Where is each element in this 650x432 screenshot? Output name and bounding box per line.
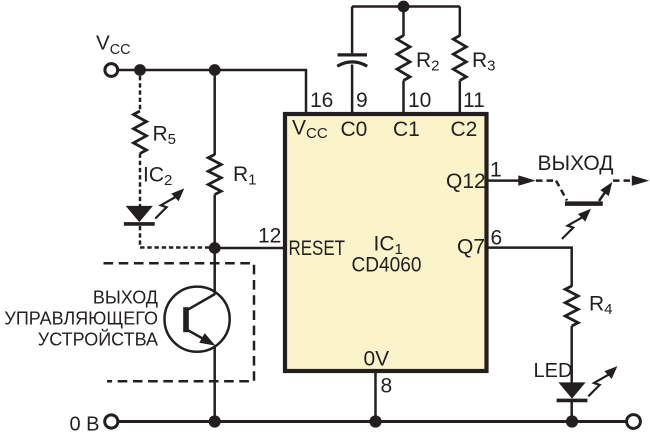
wire R4 to LED [570,326,573,383]
node junction RESET [209,242,221,254]
resistor R5 [134,111,147,154]
svg-text:12: 12 [258,225,281,248]
arrow output end [632,175,650,185]
wire VCC node down to R1 [213,70,216,155]
svg-text:10: 10 [408,89,431,112]
light arrow at output device [562,209,591,239]
wire reset node down to transistor collector [213,248,216,295]
svg-text:11: 11 [463,89,485,112]
wire transistor emitter to 0V rail [213,346,216,422]
LED D1 symbol [557,382,588,400]
node junction LED at rail [566,415,578,427]
svg-text:6: 6 [491,227,503,250]
dashed output continues [613,179,633,182]
wire dashed R5 to IC2 [139,154,142,207]
0V terminal circle right [627,415,641,429]
svg-text:C1: C1 [393,118,420,141]
wire dashed IC2 to reset node [140,226,209,248]
wire top net to R3 [459,7,462,37]
resistor R1 [208,155,221,195]
svg-text:CD4060: CD4060 [352,254,422,277]
svg-text:9: 9 [356,89,368,112]
wire top net to R2 [402,7,405,37]
node junction at R5 branch [134,64,146,76]
resistor R2 [397,36,410,81]
node junction pin 8 at rail [369,415,381,427]
svg-text:ВЫХОД: ВЫХОД [537,152,613,175]
wire LED to 0V rail [570,402,573,422]
svg-text:LED: LED [534,360,573,382]
node junction top net [398,1,410,13]
svg-text:0V: 0V [364,348,390,371]
output transistor emitter arrow [599,188,608,201]
wire pin 6 Q7 to R4 [486,248,572,287]
wire R1 to reset node [213,195,216,249]
light arrow at LED [588,366,617,396]
svg-text:Q7: Q7 [457,236,485,259]
svg-text:16: 16 [310,89,333,112]
arrow Q12 output [518,175,536,185]
dashed link to output device [536,179,556,182]
svg-text:Q12: Q12 [446,170,486,193]
wire pin 8 to rail [374,371,377,422]
wire top net C0-C1-C2 [352,5,460,8]
wire dashed VCC node to R5 [139,76,142,112]
svg-text:УПРАВЛЯЮЩЕГО: УПРАВЛЯЮЩЕГО [4,309,158,329]
node junction transistor emitter at rail [209,415,221,427]
dashed box around control device [104,263,255,381]
svg-text:C2: C2 [451,118,478,141]
resistor R3 [453,36,466,81]
wire capacitor to pin 9 [351,65,354,115]
IC U1 CD4060 body [285,114,487,371]
wire top net to capacitor [351,7,354,54]
node junction at R1 branch [209,64,221,76]
output phototransistor bar [565,201,603,206]
svg-text:ВЫХОД: ВЫХОД [93,288,158,308]
wire VCC rail to pin 16 [118,70,306,114]
VCC terminal circle [105,64,118,77]
wire pin 1 Q12 output [486,179,520,182]
resistor R4 [565,286,578,326]
photodiode IC2 symbol [124,206,155,224]
wire reset node to pin 12 [215,247,285,250]
transistor Q1 (control device output) [165,287,230,352]
capacitor C1 (timing) [337,55,367,66]
wire 0V rail [118,420,627,423]
svg-text:RESET: RESET [289,237,346,260]
svg-text:1: 1 [490,159,502,182]
wire R2 to pin 10 [402,81,405,115]
svg-text:УСТРОЙСТВА: УСТРОЙСТВА [38,328,158,349]
svg-text:8: 8 [381,375,393,398]
light arrow at IC2 [155,188,184,218]
0V terminal circle left [105,415,118,428]
svg-text:0 В: 0 В [70,414,100,432]
svg-text:C0: C0 [341,118,368,141]
wire R3 to pin 11 [459,81,462,115]
